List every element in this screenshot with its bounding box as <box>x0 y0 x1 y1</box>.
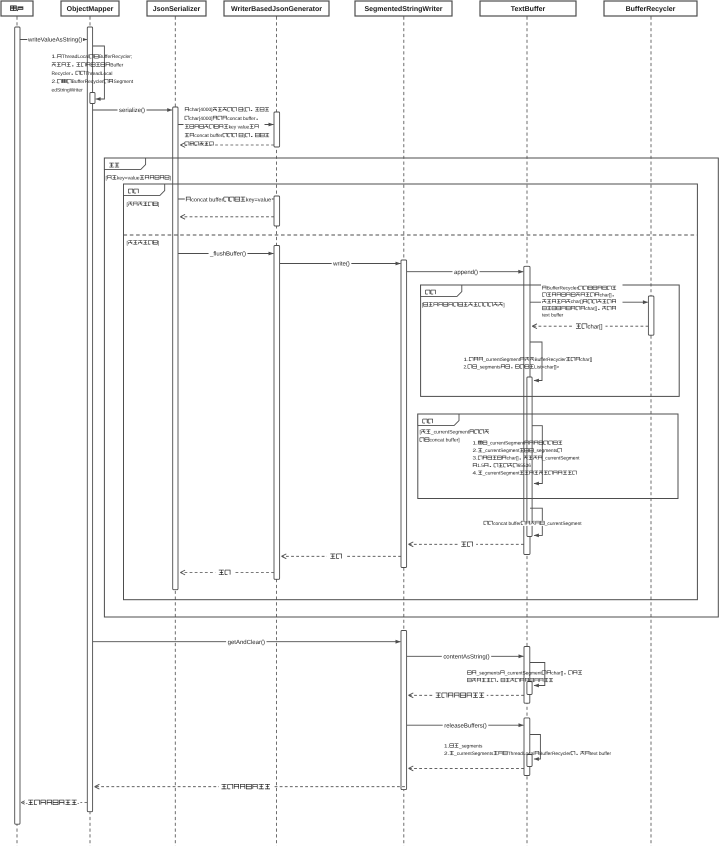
lifeline head BufferRecycler <box>604 1 697 16</box>
activation TextBuffer append <box>524 266 530 554</box>
svg-text:_currentSegment: _currentSegment <box>482 471 520 477</box>
activation SegmentedStringWriter write <box>401 260 407 568</box>
lifeline head User 用户 <box>1 1 33 16</box>
lifeline BufferRecycler <box>650 17 652 846</box>
self-message TextBuffer release buffers <box>530 735 541 760</box>
svg-text:concat buffer]: concat buffer] <box>430 438 461 444</box>
svg-text:BufferRecycler: BufferRecycler <box>547 286 579 292</box>
lifeline WriterBasedJsonGenerator <box>276 17 278 846</box>
svg-text:concat buffer: concat buffer <box>227 116 256 122</box>
svg-text:ThreadLocal: ThreadLocal <box>85 71 112 77</box>
svg-text:_currentSegment: _currentSegment <box>482 448 520 454</box>
svg-text:2.: 2. <box>464 364 468 370</box>
return TextBuffer to SegmentedStringWriter result <box>410 694 525 696</box>
svg-text:char[]: char[] <box>600 292 612 298</box>
fragment loop 循环 <box>104 158 718 617</box>
svg-text:-: - <box>26 800 28 807</box>
lifeline head SegmentedStringWriter <box>355 1 452 16</box>
svg-text:SegmentedStringWriter: SegmentedStringWriter <box>364 5 442 13</box>
return SegmentedStringWriter to ObjectMapper result <box>96 786 405 788</box>
fragment alt segment too small 选择 <box>418 414 678 499</box>
return ObjectMapper to User result <box>22 802 87 804</box>
activation SegmentedStringWriter getAndClear <box>401 631 407 790</box>
activation WriterBasedJsonGenerator write key=value <box>274 196 280 226</box>
activation TextBuffer contentAsString <box>524 647 530 704</box>
note: get cached char[] from BufferRecycler (message label) <box>541 283 623 318</box>
lifeline ObjectMapper <box>89 17 91 846</box>
svg-text:append(): append() <box>454 269 478 276</box>
note: copy concat buffer into _currentSegment <box>483 521 582 526</box>
svg-text:BufferRecycler: BufferRecycler <box>72 79 104 85</box>
note: write "{" to concat buffer (message label) <box>184 105 265 147</box>
svg-text:char[]: char[] <box>551 670 563 676</box>
svg-text:JsonSerializer: JsonSerializer <box>153 5 201 13</box>
lifeline JsonSerializer <box>174 17 176 846</box>
svg-text:releaseBuffers(): releaseBuffers() <box>444 722 487 729</box>
self-message TextBuffer copy concat buffer data <box>530 508 542 535</box>
self-message TextBuffer init _currentSegment <box>530 342 542 381</box>
return SegmentedStringWriter to WriterBasedJsonGenerator <box>283 555 402 557</box>
svg-text:edStringWriter: edStringWriter <box>52 87 84 93</box>
svg-text:concat buffer: concat buffer <box>493 521 521 527</box>
return BufferRecycler to TextBuffer char[] <box>533 325 648 327</box>
activation TextBuffer nested self-calls <box>527 377 532 537</box>
lifeline head WriterBasedJsonGenerator <box>224 1 329 16</box>
svg-text:_currentSegment: _currentSegment <box>430 430 470 436</box>
lifeline User <box>16 17 18 846</box>
svg-text:List<char[]>: List<char[]> <box>534 364 559 370</box>
return TextBuffer to SegmentedStringWriter <box>410 543 524 545</box>
svg-text:_segments: _segments <box>533 448 558 454</box>
svg-text:4.: 4. <box>473 471 478 477</box>
svg-text:_segments: _segments <box>476 364 501 370</box>
svg-text:char[]: char[] <box>585 306 597 312</box>
svg-text:text buffer: text buffer <box>590 751 612 757</box>
svg-text:1.5: 1.5 <box>477 463 484 469</box>
lifeline SegmentedStringWriter <box>403 17 405 846</box>
svg-text:WriterBasedJsonGenerator: WriterBasedJsonGenerator <box>231 5 322 13</box>
svg-text:Segment: Segment <box>113 79 133 85</box>
svg-text:concat buffer: concat buffer <box>194 133 223 139</box>
svg-text:1.: 1. <box>444 743 449 749</box>
svg-text:concat buffer: concat buffer <box>191 196 223 203</box>
self-message TextBuffer concat segments <box>530 663 545 686</box>
svg-text:_currentSegment: _currentSegment <box>486 441 524 447</box>
self-message ObjectMapper create SegmentedStringWriter <box>93 46 105 99</box>
svg-text:contentAsString(): contentAsString() <box>443 653 489 660</box>
svg-text:text buffer: text buffer <box>542 313 564 319</box>
message TextBuffer to BufferRecycler get char[] <box>530 301 648 303</box>
return WriterBasedJsonGenerator to JsonSerializer (flush done) <box>181 572 274 574</box>
svg-text:writeValueAsString(): writeValueAsString() <box>27 37 82 44</box>
svg-text:Buffer: Buffer <box>110 63 123 69</box>
lifeline head ObjectMapper <box>61 1 119 16</box>
activation TextBuffer nested releaseBuffers self-call <box>527 755 532 767</box>
activation ObjectMapper nested self-call <box>90 93 95 104</box>
lifeline head TextBuffer <box>480 1 576 16</box>
svg-text:2.: 2. <box>444 751 449 757</box>
svg-text:Recycler: Recycler <box>52 71 71 77</box>
activation TextBuffer releaseBuffers <box>524 718 530 776</box>
return WriterBasedJsonGenerator to JsonSerializer (key=value written) <box>181 216 274 218</box>
svg-text:_currentSegment: _currentSegment <box>504 670 542 676</box>
fragment alt buffer state 选择 <box>124 184 698 600</box>
svg-text:key value: key value <box>229 124 250 130</box>
svg-text:char[]: char[] <box>580 357 592 363</box>
svg-text:write(): write() <box>332 261 350 268</box>
svg-text:char[]: char[] <box>571 299 583 305</box>
svg-text:getAndClear(): getAndClear() <box>228 639 265 646</box>
svg-text:1.: 1. <box>464 357 469 363</box>
svg-text:_segments: _segments <box>458 743 483 749</box>
svg-text:_currentSegment: _currentSegment <box>482 357 520 363</box>
message _flushBuffer() <box>178 253 273 255</box>
message serialize() <box>93 109 172 111</box>
alt divider dashed <box>124 234 698 236</box>
lifeline TextBuffer <box>526 17 528 846</box>
svg-text:ThreadLocal: ThreadLocal <box>62 54 89 60</box>
svg-text:_segments: _segments <box>476 670 501 676</box>
svg-text:BufferRecycler: BufferRecycler <box>534 357 566 363</box>
fragment alt first entry 选择 <box>421 285 680 396</box>
activation BufferRecycler alloc <box>648 296 654 335</box>
svg-text:key=value: key=value <box>246 196 271 203</box>
message JsonSerializer to WriterBasedJsonGenerator write "{" <box>178 124 273 126</box>
svg-text:TextBuffer: TextBuffer <box>511 5 546 13</box>
svg-text:key=value: key=value <box>117 175 140 181</box>
svg-text:-: - <box>77 800 79 807</box>
message contentAsString() <box>407 655 524 657</box>
activation JsonSerializer serialize <box>173 107 178 590</box>
message writeValueAsString() <box>20 39 87 41</box>
activation WriterBasedJsonGenerator ctor <box>274 112 280 147</box>
activation WriterBasedJsonGenerator _flushBuffer <box>274 246 280 580</box>
svg-text:65536: 65536 <box>518 463 532 469</box>
svg-text:_currentSegment: _currentSegment <box>542 456 580 462</box>
message append() <box>407 271 523 273</box>
activation TextBuffer nested contentAsString self-call <box>527 682 532 695</box>
lifeline head JsonSerializer <box>147 1 206 16</box>
svg-text:2.: 2. <box>52 79 57 85</box>
svg-text:1.: 1. <box>52 54 57 60</box>
return TextBuffer to SegmentedStringWriter (buffers released) <box>410 767 525 769</box>
message getAndClear() <box>93 641 401 643</box>
svg-text:BufferRecycler;: BufferRecycler; <box>99 54 132 60</box>
svg-text:3.: 3. <box>473 456 478 462</box>
svg-text:BufferRecycler: BufferRecycler <box>626 5 676 13</box>
svg-text:char[]: char[] <box>507 456 519 462</box>
activation ObjectMapper main <box>87 27 92 812</box>
activation User main <box>15 27 20 824</box>
svg-text:serialize(): serialize() <box>119 107 145 114</box>
return WriterBasedJsonGenerator to JsonSerializer <box>181 144 274 146</box>
message write() <box>280 263 401 265</box>
svg-text:char[4000]: char[4000] <box>189 116 213 122</box>
svg-text:_currentSegment: _currentSegment <box>544 521 582 527</box>
svg-text:_flushBuffer(): _flushBuffer() <box>209 251 246 258</box>
message write one key=value to concat buffer <box>178 198 273 200</box>
svg-text:char[]: char[] <box>588 323 603 330</box>
svg-text:1.: 1. <box>473 441 478 447</box>
self-message TextBuffer grow segment <box>532 426 542 484</box>
message releaseBuffers() <box>407 724 524 726</box>
svg-text:ObjectMapper: ObjectMapper <box>67 5 114 13</box>
svg-text:char[4000]: char[4000] <box>189 107 213 113</box>
svg-text:_currentSegments: _currentSegments <box>453 751 494 757</box>
svg-text:2.: 2. <box>473 448 478 454</box>
svg-text:BufferRecycler: BufferRecycler <box>539 751 571 757</box>
svg-text:ThreadLocal: ThreadLocal <box>508 751 535 757</box>
